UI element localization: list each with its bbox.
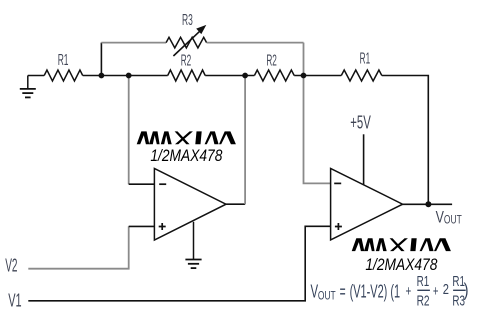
node B junction dot: [126, 73, 132, 79]
resistor R2 (first): [168, 70, 206, 81]
svg-text:): ): [464, 280, 469, 300]
wire black into U1 plus input: [129, 225, 155, 227]
wire main line R2 to R2: [205, 75, 254, 77]
MAXIM logo 2: [352, 238, 451, 251]
svg-text:V1: V1: [8, 291, 21, 311]
wire gray V2 line: [28, 226, 128, 268]
svg-text:R3: R3: [182, 12, 193, 29]
resistor R2 (second): [254, 70, 294, 81]
wire black riser node A to R3 branch: [100, 43, 102, 76]
svg-text:1/2MAX478: 1/2MAX478: [150, 147, 223, 165]
svg-text:OUT: OUT: [318, 289, 336, 303]
wire black U2 output to VOUT: [402, 203, 452, 205]
resistor R3 (potentiometer): [166, 37, 207, 48]
node D junction dot: [301, 73, 307, 79]
svg-text:+: +: [406, 283, 412, 300]
resistor R1 (right): [341, 70, 382, 81]
wire main line R2 to R1 right: [294, 75, 341, 77]
svg-text:R1: R1: [360, 51, 371, 68]
op-amp U2: [331, 168, 403, 240]
svg-text:2: 2: [443, 281, 449, 298]
svg-text:R1: R1: [58, 52, 69, 69]
wire black U1 output stub: [226, 203, 246, 205]
wire main line R1 to R2: [83, 75, 168, 77]
MAXIM logo 1: [137, 131, 236, 144]
svg-text:R2: R2: [181, 53, 192, 70]
svg-text:V: V: [436, 208, 444, 226]
wire gray U1 output up to node C: [244, 76, 246, 205]
node VOUT junction dot: [425, 201, 431, 207]
wire main line segment ground to R1: [28, 75, 44, 77]
wire gray node D down to op-amp U2 minus: [304, 76, 331, 184]
wire black V1 line up to U2 plus: [28, 226, 330, 300]
svg-text:OUT: OUT: [444, 213, 462, 227]
wire gray R3 branch left: [101, 42, 166, 44]
wire main line R1 right to corner and down to output node: [382, 76, 429, 205]
node C junction dot: [242, 73, 248, 79]
svg-text:V2: V2: [5, 256, 17, 276]
wire gray node B down to op-amp U1 minus: [128, 76, 130, 185]
ground (under U1): [185, 222, 201, 268]
wire gray riser R3 branch down to node D: [303, 43, 305, 76]
svg-text:(V1-V2) (1: (V1-V2) (1: [350, 282, 401, 302]
svg-text:+: +: [433, 283, 439, 300]
wire black +5V stem: [363, 134, 365, 185]
svg-text:+5V: +5V: [350, 112, 371, 132]
U2 plus symbol: [335, 223, 342, 230]
formula VOUT = (V1-V2) (1 + R1/R2 + 2 R1/R3): [311, 273, 469, 310]
U1 plus symbol: [159, 223, 166, 230]
wire black into U1 minus input: [129, 183, 155, 185]
svg-text:R2: R2: [266, 53, 277, 70]
node A junction dot: [99, 73, 105, 79]
svg-text:R1: R1: [417, 273, 430, 290]
svg-text:1/2MAX478: 1/2MAX478: [365, 256, 438, 274]
op-amp U1: [154, 169, 226, 241]
U1 minus symbol: [159, 183, 166, 185]
wire gray R3 branch right: [207, 42, 304, 44]
svg-text:=: =: [340, 282, 346, 302]
resistor R1 (left): [44, 70, 82, 81]
U2 minus symbol: [334, 182, 341, 184]
potentiometer arrow: [173, 30, 200, 56]
svg-text:R2: R2: [417, 293, 430, 310]
ground (left input): [20, 76, 36, 98]
